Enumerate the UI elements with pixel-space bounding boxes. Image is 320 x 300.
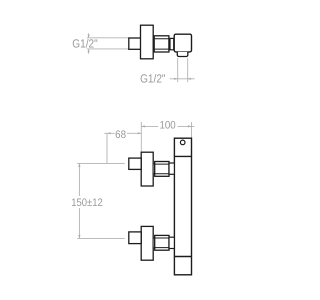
extension line: bar right face vertical (gray) [191, 122, 193, 137]
svg-text:150±12: 150±12 [71, 197, 103, 209]
top inlet: wall nut [129, 158, 141, 169]
label 68 [115, 129, 126, 141]
label G1/2" (below stub) [140, 72, 165, 86]
valve body square (side view) [174, 34, 191, 52]
extension line: bottom inlet centerline (gray) [77, 237, 124, 239]
escutcheon plate (side view) [141, 25, 154, 59]
dimension line 68 [104, 132, 141, 134]
top inlet: escutcheon plate [141, 152, 153, 186]
dimension line 100 [141, 125, 194, 127]
bottom inlet: thread neck [153, 238, 155, 248]
bottom inlet: escutcheon plate [141, 226, 153, 260]
outlet stub (side view) [177, 52, 188, 57]
collar (side view) [170, 38, 174, 49]
union nut (side view) [154, 36, 169, 52]
bar bottom cap separation line [174, 256, 191, 258]
extension line: plate left face vertical (gray) [140, 122, 142, 152]
extension line: 68 left end vertical down to inlet centerline (gray) [106, 133, 108, 163]
bottom inlet: union hex nut [155, 235, 169, 250]
dimension line 150±12 vertical [78, 163, 80, 238]
top inlet: thread neck [153, 164, 155, 174]
top inlet: union hex nut [155, 162, 169, 177]
extension line: nipple top edge (gray) [87, 37, 129, 39]
mixer bar column (front view) [174, 138, 191, 275]
screw hole circle near bar top [180, 140, 185, 145]
svg-text:G1/2": G1/2" [72, 37, 97, 51]
svg-text:68: 68 [115, 129, 126, 141]
extension line: top inlet centerline (gray) [77, 162, 124, 164]
label G1/2" (top-left) [72, 37, 97, 51]
top inlet: spacer to bar [169, 163, 174, 174]
wall nipple (side view) [129, 38, 141, 49]
bottom inlet: wall nut [129, 232, 141, 244]
extension line: stub left edge (gray) [177, 58, 179, 82]
extension line: nipple bottom edge (gray) [87, 48, 129, 50]
svg-text:100: 100 [160, 119, 176, 131]
extension line: stub right edge (gray) [187, 58, 189, 82]
dimension line G1/2" vertical (left label) [88, 33, 90, 54]
dimension line G1/2" bottom (horizontal with outside arrows) [170, 78, 195, 80]
label 100 [160, 119, 176, 131]
label 150±12 [71, 197, 103, 209]
bottom inlet: spacer to bar [169, 237, 174, 248]
svg-text:G1/2": G1/2" [140, 72, 165, 86]
bar top cap separation line [174, 155, 191, 157]
